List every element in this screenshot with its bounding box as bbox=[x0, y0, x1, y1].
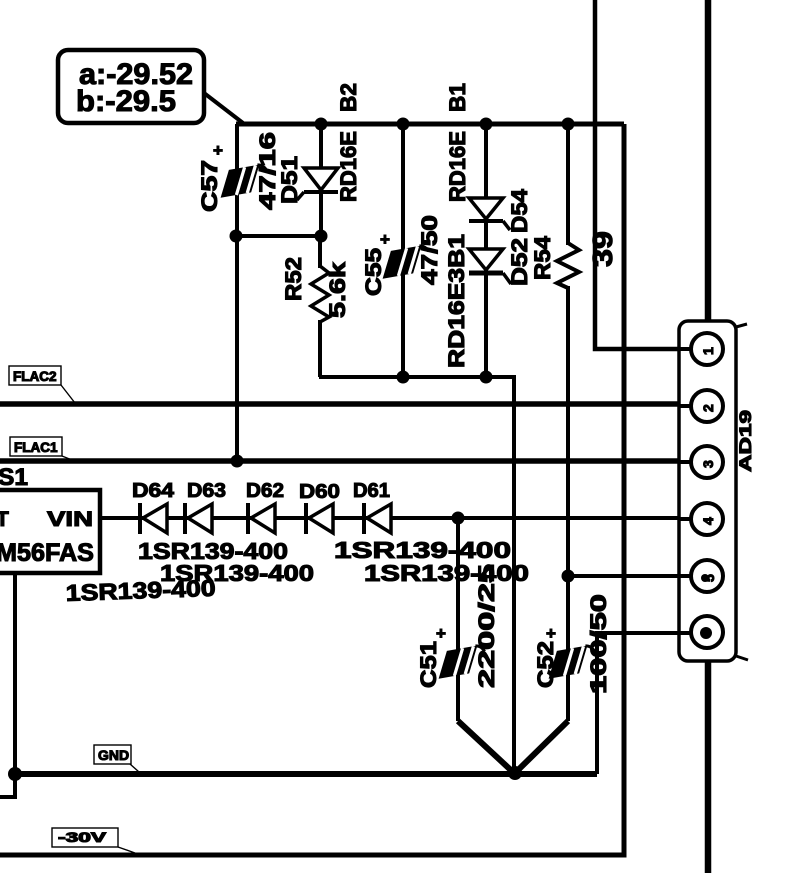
capacitor C55 bbox=[361, 124, 442, 377]
wire C57 branch bbox=[235, 124, 239, 461]
connector AD19 bbox=[678, 321, 755, 661]
svg-text:b:-29.5: b:-29.5 bbox=[76, 85, 176, 118]
zener diode D54 bbox=[469, 124, 510, 377]
svg-text:-30V: -30V bbox=[58, 829, 107, 845]
svg-text:S1: S1 bbox=[0, 464, 28, 491]
connector pin 6 bbox=[691, 616, 723, 648]
svg-text:C55: C55 bbox=[361, 248, 386, 296]
connector pin 2 bbox=[691, 390, 723, 422]
junction dot C51 tap bbox=[452, 512, 465, 525]
zener diode D51 bbox=[277, 124, 338, 236]
label D52 D54 column bbox=[507, 188, 532, 286]
svg-text:AD19: AD19 bbox=[736, 410, 755, 472]
wire to pin 5 bbox=[568, 574, 700, 578]
svg-text:+: + bbox=[380, 230, 390, 249]
svg-text:47/50: 47/50 bbox=[417, 215, 442, 285]
svg-text:3: 3 bbox=[700, 460, 716, 468]
svg-text:D51: D51 bbox=[277, 156, 302, 204]
connector pin 4 bbox=[691, 503, 723, 535]
label FLAC2 bbox=[9, 366, 75, 403]
svg-text:+: + bbox=[436, 624, 446, 643]
diode D62 bbox=[246, 480, 284, 534]
svg-text:4: 4 bbox=[700, 517, 716, 525]
svg-text:C52: C52 bbox=[533, 641, 558, 688]
capacitor C51 bbox=[416, 518, 514, 773]
connector pin 3 bbox=[691, 446, 723, 478]
svg-text:1SR139-400: 1SR139-400 bbox=[364, 560, 529, 586]
svg-text:D63: D63 bbox=[187, 480, 226, 502]
junction dot IC ground bbox=[8, 767, 22, 781]
zener diode D52 bbox=[469, 249, 511, 284]
diode D63 bbox=[185, 480, 226, 534]
wire connector bottom feed bbox=[705, 660, 712, 873]
wire FLAC1 line bbox=[0, 458, 700, 464]
capacitor C52 bbox=[515, 594, 611, 773]
resistor R52 bbox=[281, 236, 350, 377]
wire zener bottom bus bbox=[319, 377, 514, 774]
wire connector top feed bbox=[705, 0, 712, 323]
svg-text:R54: R54 bbox=[530, 235, 555, 280]
IC regulator box bbox=[0, 464, 100, 573]
svg-text:D64: D64 bbox=[132, 480, 175, 502]
wire top bus bbox=[236, 122, 624, 127]
junction dot FLAC1 tap bbox=[231, 455, 244, 468]
svg-text:+: + bbox=[213, 141, 223, 160]
svg-text:FLAC2: FLAC2 bbox=[13, 369, 57, 384]
svg-text:+: + bbox=[546, 624, 556, 643]
label GND bbox=[94, 745, 139, 772]
junction dot D51 bottom bbox=[315, 230, 328, 243]
svg-text:5: 5 bbox=[701, 574, 717, 582]
label RD16E B1 for D54 bbox=[445, 83, 470, 202]
svg-text:VIN: VIN bbox=[47, 508, 93, 531]
svg-text:2: 2 bbox=[700, 404, 716, 412]
wire bus corner down to -30V rail bbox=[0, 124, 624, 855]
svg-text:B1: B1 bbox=[445, 83, 470, 112]
wire IC ground drop bbox=[0, 573, 15, 797]
resistor R54 bbox=[530, 124, 618, 650]
svg-text:D60: D60 bbox=[299, 481, 340, 503]
junction dot bus C55 bbox=[397, 118, 410, 131]
diode D61 bbox=[353, 480, 391, 534]
wire FLAC2 line bbox=[0, 401, 700, 407]
svg-text:D61: D61 bbox=[353, 480, 390, 502]
svg-text:C51: C51 bbox=[416, 641, 441, 688]
label -30V bbox=[52, 828, 135, 853]
svg-text:5.6k: 5.6k bbox=[325, 261, 350, 318]
svg-text:RD16E: RD16E bbox=[336, 131, 361, 202]
svg-text:D62: D62 bbox=[246, 480, 284, 502]
connector pin 5 bbox=[691, 560, 723, 592]
junction dot bus R54 bbox=[562, 118, 575, 131]
wire link C57 to D51 bbox=[234, 234, 321, 238]
diode D60 bbox=[299, 481, 340, 534]
svg-text:D52: D52 bbox=[507, 238, 532, 286]
svg-text:M56FAS: M56FAS bbox=[0, 539, 94, 567]
junction dot C57 bottom bbox=[230, 230, 243, 243]
diode D64 bbox=[132, 480, 175, 534]
junction dot ground vee bbox=[508, 766, 522, 780]
wire vertical to pin 1 bbox=[595, 0, 700, 349]
svg-text:39: 39 bbox=[587, 231, 618, 267]
junction dot C55 bottom bbox=[397, 371, 410, 384]
junction dot bus D51 bbox=[315, 118, 328, 131]
svg-text:T: T bbox=[0, 508, 9, 531]
svg-text:RD16E3B1: RD16E3B1 bbox=[444, 234, 469, 368]
junction dot pin5 tap bbox=[562, 570, 575, 583]
wire GND riser to pin 6 bbox=[597, 633, 700, 774]
svg-text:FLAC1: FLAC1 bbox=[14, 440, 58, 455]
svg-text:D54: D54 bbox=[507, 188, 532, 233]
callout measurement box bbox=[58, 50, 243, 123]
junction dot D52 bottom bbox=[480, 371, 493, 384]
svg-text:GND: GND bbox=[98, 747, 129, 763]
svg-text:1SR139-400: 1SR139-400 bbox=[65, 575, 216, 606]
svg-text:1: 1 bbox=[700, 347, 716, 355]
label FLAC1 bbox=[10, 437, 72, 460]
wire diode row to pin 4 bbox=[99, 516, 700, 520]
svg-text:RD16E: RD16E bbox=[445, 131, 470, 202]
svg-text:R52: R52 bbox=[281, 257, 306, 301]
wire GND rail bbox=[13, 771, 597, 777]
label RD16E B2 for D51 bbox=[336, 83, 361, 202]
connector pin 1 bbox=[691, 333, 723, 365]
junction dot bus D54 bbox=[480, 118, 493, 131]
capacitor C57 bbox=[197, 132, 280, 212]
svg-text:B2: B2 bbox=[336, 83, 361, 112]
svg-text:C57: C57 bbox=[197, 160, 222, 212]
